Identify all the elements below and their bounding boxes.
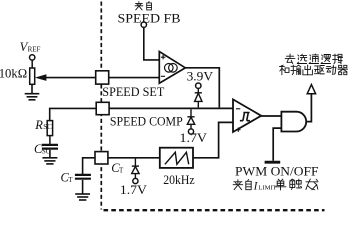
svg-text:SPEED SET: SPEED SET <box>102 85 164 99</box>
sawtooth waveform symbol <box>165 152 189 164</box>
ground below CT <box>75 180 90 200</box>
op-amp U1 error amplifier triangle <box>159 52 185 84</box>
wire U1 output to SPEED COMP rail <box>185 68 219 108</box>
wire SPEED FB to error amp non-inverting input <box>144 27 160 60</box>
resistor Rsc <box>47 121 52 136</box>
terminal 3.9V <box>196 83 201 88</box>
svg-text:SPEED FB: SPEED FB <box>118 11 181 25</box>
label laizi (from) <box>135 2 143 10</box>
comparator U2 PWM triangle <box>233 99 261 132</box>
pin box CT <box>95 152 108 164</box>
ground below R1 <box>25 84 40 100</box>
oscillator block 20kHz sawtooth <box>160 148 193 168</box>
capacitor Csc <box>42 145 58 149</box>
svg-text:T: T <box>119 167 124 175</box>
resistor R1 10k potentiometer body <box>30 68 35 84</box>
wire CT pin to oscillator <box>108 157 160 159</box>
label to gating logic line1 <box>285 54 295 63</box>
capacitor CT <box>75 175 91 179</box>
terminal bar PWM ON/OFF <box>265 161 281 164</box>
svg-text:SPEED COMP: SPEED COMP <box>110 115 183 129</box>
IC boundary dashed horizontal line <box>104 209 325 211</box>
svg-text:10kΩ: 10kΩ <box>0 67 27 81</box>
terminal VREF <box>30 55 35 60</box>
wire VREF to R1 <box>31 60 33 68</box>
U1 transconductance symbol <box>165 64 174 73</box>
diode D3 1.7V clamp on CT <box>132 159 139 179</box>
svg-text:LIMIT: LIMIT <box>258 185 276 192</box>
wire U2 output to AND gate <box>261 115 281 117</box>
U1 minus input mark <box>161 75 165 77</box>
label laizi ILIMIT one-shot <box>233 180 243 190</box>
label to gating logic line2 <box>279 65 289 75</box>
svg-text:R: R <box>34 118 43 132</box>
terminal 1.7V on SPEED COMP <box>188 129 193 134</box>
svg-text:PWM ON/OFF: PWM ON/OFF <box>235 165 319 179</box>
AND gate U3 <box>281 112 306 132</box>
pin box SPEED SET <box>96 71 109 84</box>
wire CT pin to CT capacitor <box>83 158 95 174</box>
svg-text:3.9V: 3.9V <box>187 70 213 84</box>
wiper arrow of potentiometer <box>35 74 47 81</box>
svg-text:SC: SC <box>43 123 52 131</box>
terminal 1.7V on CT <box>133 178 138 183</box>
IC boundary dashed vertical line <box>100 2 102 210</box>
wire wiper to SPEED SET pin <box>46 77 96 79</box>
svg-text:REF: REF <box>28 46 41 54</box>
svg-text:20kHz: 20kHz <box>163 173 195 187</box>
wire AND output to gating logic <box>306 94 311 122</box>
zener diode D1 3.9V clamp <box>195 88 202 107</box>
svg-text:1.7V: 1.7V <box>180 131 208 145</box>
wire PWM ON/OFF to AND gate lower input <box>273 128 281 161</box>
pin box SPEED COMP <box>96 102 109 114</box>
svg-text:1.7V: 1.7V <box>120 183 147 197</box>
wire Rsc to Csc <box>49 136 51 144</box>
terminal SPEED FB <box>141 22 146 27</box>
wire SPEED COMP to Rsc branch <box>50 108 96 120</box>
diode D2 1.7V clamp on SPEED COMP <box>187 109 194 129</box>
wire SPEED SET to error amp inverting input <box>109 77 160 79</box>
arrow to gating logic <box>307 85 315 94</box>
U2 hysteresis symbol <box>240 113 250 121</box>
wire oscillator to comparator plus input <box>193 122 233 157</box>
ground below Csc <box>42 150 57 164</box>
U2 plus input mark <box>236 128 240 132</box>
U1 plus input mark <box>161 55 165 59</box>
svg-text:T: T <box>68 176 73 184</box>
U2 minus input mark <box>236 108 240 110</box>
wire SPEED COMP rail to comparator minus input <box>109 107 233 109</box>
